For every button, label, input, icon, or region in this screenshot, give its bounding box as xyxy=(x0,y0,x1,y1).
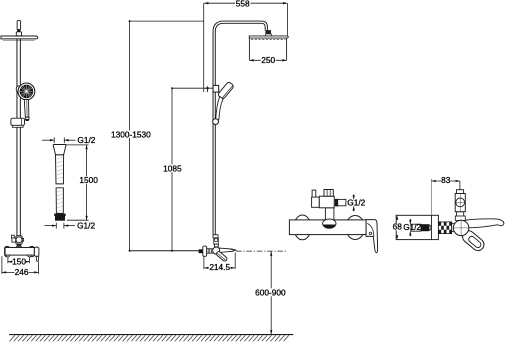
svg-text:G1/2: G1/2 xyxy=(403,222,421,232)
dimension 558 xyxy=(204,0,288,92)
left view: hand shower face xyxy=(18,83,35,100)
svg-text:246: 246 xyxy=(15,267,29,277)
svg-text:214.5: 214.5 xyxy=(209,262,230,272)
wall reference line xyxy=(130,250,199,252)
floor line xyxy=(9,334,293,336)
dimension 246 xyxy=(2,256,39,277)
side view mixer: wall union box xyxy=(396,215,438,239)
dimension 68 (on box edge) xyxy=(393,215,403,239)
side view mixer: main body circle xyxy=(453,219,470,236)
left view: hand shower handle xyxy=(24,100,29,121)
svg-text:558: 558 xyxy=(236,0,250,8)
center axis line (dash-dot) xyxy=(236,250,287,252)
svg-text:G1/2: G1/2 xyxy=(77,135,95,145)
floor hatch xyxy=(10,335,289,341)
left view: lever handle (edge) xyxy=(34,247,39,261)
side view mixer: G1/2 nipple xyxy=(411,224,431,231)
svg-text:1300-1530: 1300-1530 xyxy=(111,129,151,139)
side view mixer: threaded connector xyxy=(438,222,451,234)
side view mixer: spout xyxy=(464,219,504,228)
dimension 214.5 xyxy=(204,253,235,273)
center view: head connector xyxy=(265,30,272,36)
slider leader line xyxy=(172,86,213,92)
side view mixer: valve cartridge xyxy=(455,190,465,221)
svg-text:1085: 1085 xyxy=(163,163,182,173)
svg-text:G1/2: G1/2 xyxy=(77,220,95,230)
center view: overhead shower plate xyxy=(249,36,288,60)
center view: mixer valve body xyxy=(213,247,220,254)
left view: slide holder xyxy=(11,118,25,127)
dimension 150 xyxy=(8,256,30,266)
svg-text:250: 250 xyxy=(261,55,275,65)
center view: spout xyxy=(219,248,236,252)
dimension 250 xyxy=(249,55,286,65)
dimension 1300-1530 xyxy=(111,20,151,251)
hose dimension G1/2 bottom xyxy=(45,220,96,230)
hose upper segment xyxy=(56,155,64,184)
dimension 1500 xyxy=(66,145,98,220)
front view mixer: diverter valve xyxy=(312,190,346,208)
dimension 1085 xyxy=(163,87,182,251)
front view mixer: escutcheon oval xyxy=(323,219,336,229)
center view: hand shower head xyxy=(217,81,234,99)
svg-text:600-900: 600-900 xyxy=(255,287,286,297)
center view: slider block xyxy=(213,85,219,92)
center view: mixer handle xyxy=(216,251,228,262)
hose ferrule xyxy=(54,214,65,221)
hose dimension G1/2 top xyxy=(42,135,96,145)
svg-text:G1/2: G1/2 xyxy=(347,197,365,207)
front view mixer: lever handle xyxy=(366,220,378,253)
dimension G1/2 (front view) xyxy=(347,195,365,212)
left view: diverter valve cross xyxy=(12,235,24,250)
center view: mixer fitting xyxy=(213,235,218,247)
left view: shower head plate xyxy=(1,36,38,40)
left view: hand shower mount xyxy=(16,86,21,93)
center view: hand shower hose neck xyxy=(216,96,223,119)
top reference line xyxy=(130,20,204,22)
front view mixer: body xyxy=(289,220,366,235)
front view mixer: mounting ellipses xyxy=(294,215,365,240)
front view mixer: riser tube xyxy=(325,208,334,220)
svg-text:150: 150 xyxy=(12,256,26,266)
svg-text:1500: 1500 xyxy=(79,175,98,185)
dimension 600-900 xyxy=(255,251,286,334)
side view mixer: handle loop xyxy=(460,228,486,253)
center view: wall stub (black) xyxy=(199,249,203,253)
center view: ball joint xyxy=(213,119,219,125)
hose lower segment xyxy=(56,188,63,214)
dimension 83 xyxy=(431,175,460,214)
center view: thread connector xyxy=(207,249,213,254)
svg-text:68: 68 xyxy=(393,222,403,232)
svg-text:83: 83 xyxy=(441,175,451,185)
side view mixer: collar xyxy=(452,223,457,231)
left view: mixer body xyxy=(5,247,35,258)
center view: riser pipe with top bend xyxy=(214,22,266,235)
hose top connector xyxy=(53,145,66,155)
center view: wall flange xyxy=(203,246,207,256)
left view: top stem xyxy=(16,21,21,36)
dimension G1/2 (side view) xyxy=(403,219,421,236)
left view: column pipe xyxy=(17,39,20,236)
